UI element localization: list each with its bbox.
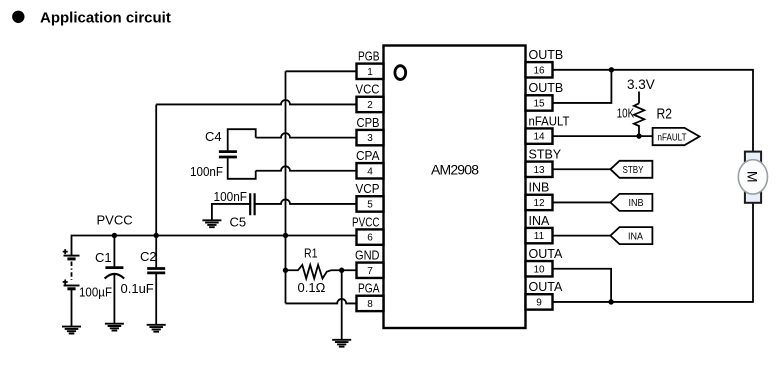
wire 3.3V to R2 top — [638, 92, 640, 104]
wire VCC vertical drop to PVCC rail — [155, 104, 157, 235]
svg-text:2: 2 — [367, 100, 373, 111]
motor M1 body circle — [738, 160, 767, 194]
junction dot PVCC rail / bus — [283, 233, 288, 238]
wire pin14 nFAULT to flag — [553, 135, 653, 137]
svg-text:PGB: PGB — [358, 50, 380, 64]
pin 3 box (CPB) — [357, 130, 384, 145]
battery plus sign (top cell) — [63, 249, 68, 254]
wire C1 top leg — [113, 236, 115, 268]
battery cell 2 — [64, 285, 80, 287]
wire C2 top leg — [155, 236, 157, 269]
svg-text:8: 8 — [367, 299, 373, 310]
svg-text:1: 1 — [367, 67, 373, 78]
svg-text:R1: R1 — [304, 247, 318, 261]
capacitor C1 top plate — [105, 266, 123, 269]
resistor R2 zigzag (vertical) — [634, 103, 644, 136]
svg-text:OUTB: OUTB — [529, 81, 564, 95]
junction dot OUTA net — [608, 299, 613, 304]
ground for R1/GND pin — [332, 340, 351, 347]
svg-text:nFAULT: nFAULT — [529, 114, 570, 128]
svg-text:PVCC: PVCC — [352, 215, 380, 229]
output flag nFAULT — [653, 128, 700, 145]
junction dot R2 / nFAULT — [636, 133, 641, 138]
wire pin3 CPB segment (hop over bus) — [256, 133, 357, 137]
svg-text:0.1Ω: 0.1Ω — [298, 280, 326, 295]
svg-text:4: 4 — [367, 166, 373, 177]
svg-text:PGA: PGA — [358, 282, 380, 296]
svg-text:11: 11 — [534, 231, 545, 242]
battery plus sign (bottom cell) — [63, 280, 68, 285]
svg-text:INB: INB — [529, 181, 550, 195]
wire battery to ground — [71, 289, 73, 327]
wire pin16 OUTB to motor top — [553, 70, 754, 152]
wire C4 bottom leg — [228, 158, 256, 179]
pin 1 box (PGB) — [357, 64, 384, 79]
wire pin2 VCC left segment (hop over bus) — [156, 100, 356, 104]
svg-text:STBY: STBY — [623, 164, 644, 176]
input flag STBY — [610, 161, 652, 178]
svg-text:OUTA: OUTA — [529, 247, 563, 261]
svg-text:INA: INA — [529, 214, 551, 228]
pin 8 box (PGA) — [357, 296, 384, 311]
svg-text:15: 15 — [533, 99, 545, 110]
resistor R1 zigzag — [286, 265, 332, 279]
svg-text:3.3V: 3.3V — [627, 77, 655, 92]
junction dot bus / R1 left — [283, 268, 288, 273]
svg-text:PVCC: PVCC — [97, 213, 133, 228]
svg-text:C5: C5 — [230, 215, 247, 230]
wire vertical bus PGB/PVCC/PGA net, corner to pin8 — [285, 71, 287, 303]
svg-text:CPA: CPA — [356, 149, 380, 163]
junction dot OUTB net — [609, 67, 614, 72]
wire pin7 GND to R1 right — [331, 269, 357, 271]
pin 13 box (STBY) — [526, 162, 553, 177]
svg-text:3: 3 — [367, 133, 373, 144]
svg-text:13: 13 — [533, 165, 545, 176]
pin 11 box (INA) — [526, 228, 553, 243]
pin 14 box (nFAULT) — [526, 128, 553, 143]
pin 6 box (PVCC) — [357, 229, 384, 244]
svg-text:VCP: VCP — [356, 182, 380, 196]
svg-text:INB: INB — [629, 197, 644, 209]
wire pin8 PGA from bus corner (hop over ground stem) — [286, 299, 357, 303]
svg-text:STBY: STBY — [529, 147, 562, 161]
wire pin9 OUTA to motor bottom — [553, 203, 754, 302]
pin 9 box (OUTA) — [526, 294, 553, 309]
pin 7 box (GND) — [357, 263, 384, 278]
motor M1 top terminal — [745, 152, 761, 163]
pin 16 box (OUTB) — [526, 62, 553, 77]
wire C4 top leg — [228, 129, 256, 150]
pin 5 box (VCP) — [357, 196, 384, 211]
svg-text:C4: C4 — [205, 129, 222, 144]
junction dot PVCC rail / C2 / VCC — [154, 233, 159, 238]
svg-text:10K: 10K — [617, 106, 635, 121]
capacitor C5 plates — [250, 193, 254, 215]
svg-text:OUTA: OUTA — [529, 280, 563, 294]
svg-text:7: 7 — [367, 266, 373, 277]
svg-text:CPB: CPB — [357, 116, 380, 130]
input flag INA — [610, 227, 652, 244]
capacitor C4 plates — [219, 152, 237, 157]
svg-text:100µF: 100µF — [79, 285, 112, 300]
battery dash-dot (omitted cells) — [71, 262, 73, 281]
wire pin12 INB to flag — [553, 201, 611, 203]
op-amp U1 AM2908 IC body — [384, 46, 526, 329]
svg-text:C2: C2 — [140, 249, 157, 264]
svg-text:100nF: 100nF — [190, 164, 223, 179]
U1 pin-1 indicator circle — [395, 66, 406, 80]
wire pin1 PGB to vertical bus — [286, 70, 357, 72]
ground for C2 — [147, 325, 166, 332]
junction dot R1 right / ground stem — [339, 268, 344, 273]
capacitor C1 curved bottom plate — [105, 274, 125, 279]
wire OUTB junction down to pin15 — [553, 70, 612, 103]
svg-text:VCC: VCC — [356, 83, 380, 97]
svg-text:16: 16 — [533, 65, 545, 76]
svg-text:0.1uF: 0.1uF — [121, 281, 154, 296]
wire pin5 VCP to C5 right plate (hop over bus) — [255, 199, 357, 203]
pin 10 box (OUTA) — [526, 261, 553, 276]
svg-text:14: 14 — [533, 132, 545, 143]
junction dot PVCC rail / C1 — [112, 233, 117, 238]
svg-text:OUTB: OUTB — [529, 48, 564, 62]
wire C2 bottom leg — [155, 274, 157, 325]
input flag INB — [610, 194, 652, 211]
pin 12 box (INB) — [526, 195, 553, 210]
capacitor C2 plates — [147, 269, 165, 273]
wire ground stem below R1 junction — [341, 270, 343, 339]
svg-text:Application circuit: Application circuit — [40, 10, 171, 27]
motor M1 bottom terminal — [745, 192, 761, 203]
svg-text:AM2908: AM2908 — [431, 162, 479, 178]
ground for battery — [62, 327, 81, 334]
svg-text:12: 12 — [533, 198, 545, 209]
pin 2 box (VCC) — [357, 97, 384, 112]
ground for C1 — [105, 324, 124, 331]
svg-text:10: 10 — [533, 264, 545, 275]
svg-text:6: 6 — [367, 233, 373, 244]
svg-text:GND: GND — [355, 248, 380, 262]
pin 15 box (OUTB) — [526, 95, 553, 110]
svg-text:5: 5 — [367, 200, 373, 211]
svg-text:M: M — [745, 171, 761, 183]
wire pin13 STBY to flag — [553, 168, 611, 170]
svg-text:R2: R2 — [657, 106, 673, 123]
wire pin4 CPA segment (hop over bus) — [256, 166, 357, 170]
title bullet — [12, 11, 24, 23]
ground for C5 — [202, 220, 221, 227]
svg-text:nFAULT: nFAULT — [658, 131, 687, 143]
pin 4 box (CPA) — [357, 163, 384, 178]
svg-text:100nF: 100nF — [214, 189, 248, 204]
svg-text:9: 9 — [536, 298, 542, 309]
wire C1 bottom leg — [113, 274, 115, 323]
wire pin11 INA to flag — [553, 235, 611, 237]
svg-text:INA: INA — [628, 230, 643, 242]
wire PVCC rail pin6 to battery — [72, 236, 357, 256]
svg-text:C1: C1 — [95, 250, 112, 265]
battery cell 1 — [64, 255, 80, 257]
wire pin10 OUTA down to pin9 net — [553, 269, 612, 302]
wire C5 left plate to ground — [212, 204, 250, 220]
